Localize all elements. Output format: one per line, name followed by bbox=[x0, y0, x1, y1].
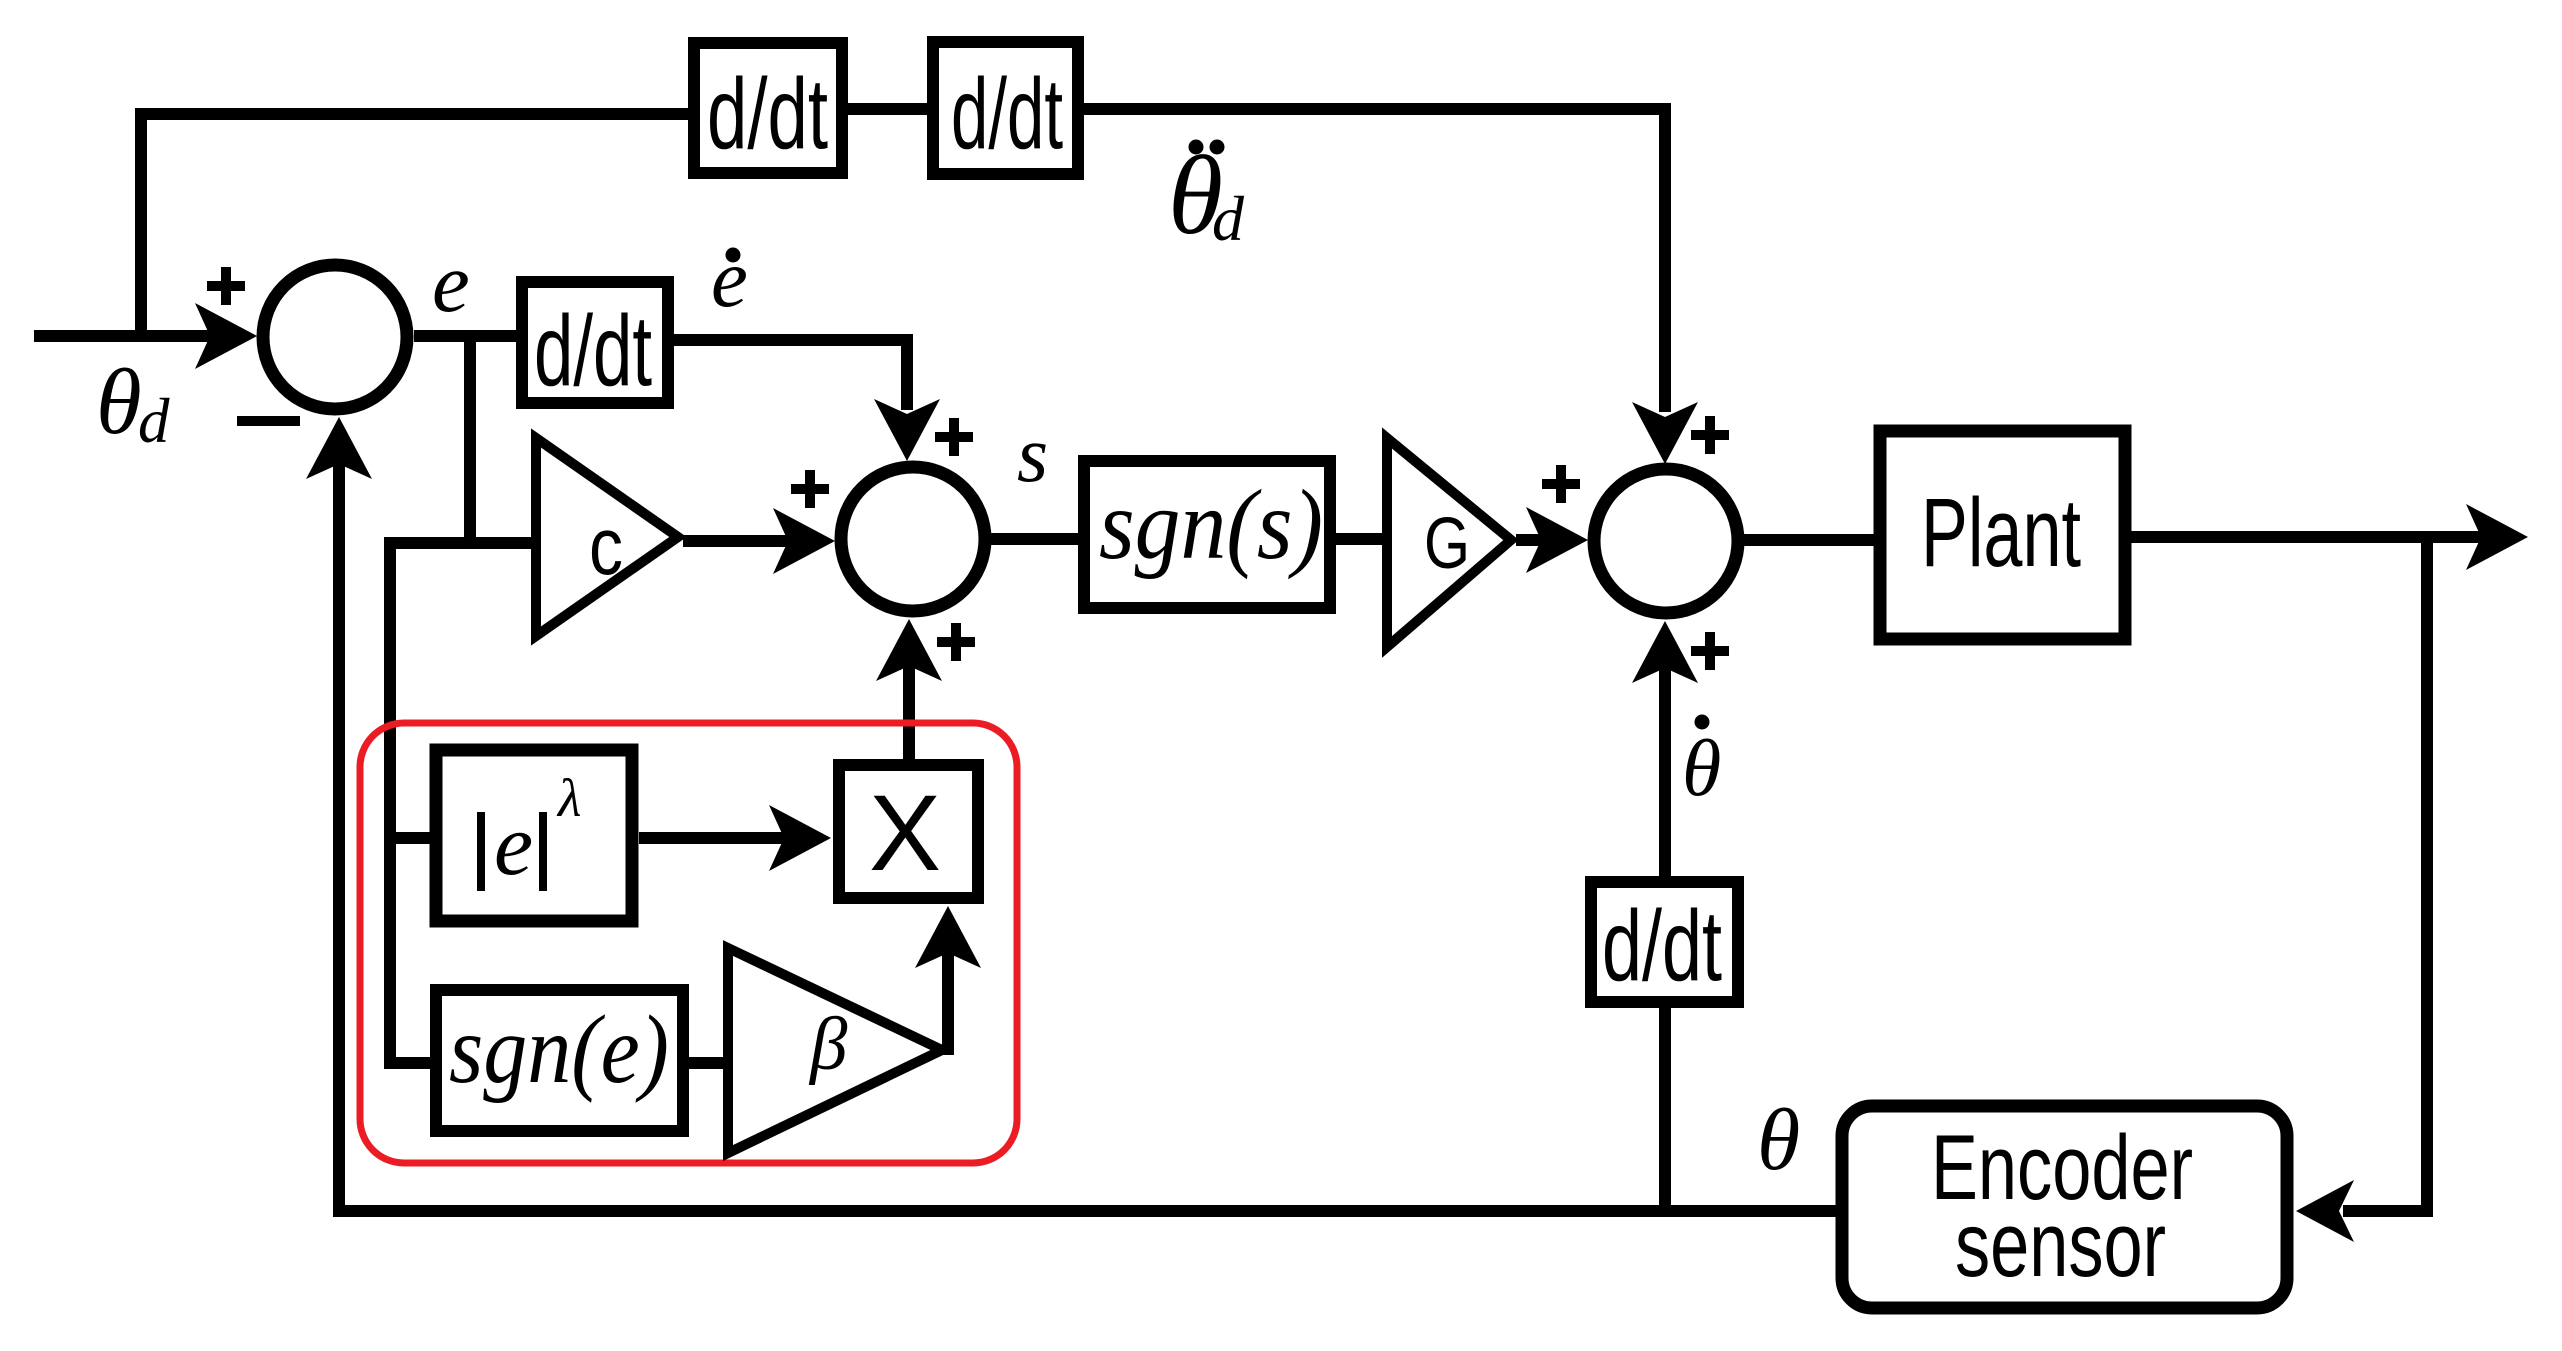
plus sign at S2 top bbox=[935, 418, 973, 456]
plus sign at S3 bottom bbox=[1691, 632, 1729, 670]
wire e output of S1 bbox=[414, 330, 516, 342]
gain G triangle bbox=[1387, 438, 1511, 647]
block sgn(e) bbox=[436, 990, 683, 1131]
wire bottom feedback line theta bbox=[339, 1205, 1840, 1217]
wire stub into sgn(e) block bbox=[384, 1057, 430, 1069]
svg-text:s: s bbox=[1017, 411, 1048, 499]
arrowhead into Encoder sensor right bbox=[2296, 1180, 2354, 1242]
wire sgn(e) to gain beta bbox=[683, 1057, 727, 1069]
arrowhead G into S3 left bbox=[1526, 507, 1588, 573]
plus sign at S2 bottom bbox=[937, 623, 975, 661]
wire feedback into Encoder sensor bbox=[2343, 1205, 2433, 1217]
minus sign at S1 bottom bbox=[237, 416, 300, 426]
plus sign at S3 left bbox=[1542, 465, 1580, 503]
svg-text:d/dt: d/dt bbox=[707, 58, 828, 170]
wire multiplier X up to S2 bottom bbox=[903, 664, 915, 759]
wire between top d/dt blocks bbox=[848, 103, 927, 115]
arrowhead edot into S2 top bbox=[874, 399, 940, 461]
wire theta up to d/dt bbox=[1659, 1008, 1671, 1217]
wire gain beta up to X bottom bbox=[942, 951, 954, 1055]
svg-text:θ: θ bbox=[96, 351, 142, 454]
svg-text:c: c bbox=[589, 501, 623, 592]
wire d/dt up to S3 bottom bbox=[1659, 666, 1671, 876]
wire input theta_d bbox=[34, 330, 210, 342]
svg-text:sgn(s): sgn(s) bbox=[1099, 469, 1323, 580]
svg-text:θ: θ bbox=[1757, 1092, 1800, 1189]
svg-text:sgn(e): sgn(e) bbox=[449, 996, 669, 1103]
svg-text:d/dt: d/dt bbox=[951, 58, 1063, 170]
arrowhead c into S2 left bbox=[773, 508, 835, 574]
gain beta triangle bbox=[728, 948, 942, 1153]
arrowhead thetadd into S3 top bbox=[1632, 402, 1698, 464]
summing junction S2 bbox=[841, 467, 985, 611]
svg-text:e: e bbox=[711, 232, 748, 324]
block |e|^lambda bbox=[436, 750, 632, 921]
svg-text:λ: λ bbox=[556, 768, 581, 828]
svg-text:d/dt: d/dt bbox=[534, 295, 652, 407]
svg-text:e: e bbox=[432, 236, 470, 330]
arrowhead into S1 bottom (minus feedback) bbox=[306, 417, 372, 479]
arrowhead into S1 left bbox=[195, 303, 257, 369]
wire gain c to S2 left bbox=[683, 535, 788, 547]
wire e branch down bbox=[464, 336, 476, 543]
arrowhead abs-e into X left bbox=[769, 805, 831, 871]
arrowhead system output bbox=[2466, 504, 2528, 570]
red highlight box bbox=[360, 723, 1017, 1163]
block Encoder sensor bbox=[1842, 1106, 2287, 1308]
arrowhead beta into X bottom bbox=[915, 906, 981, 968]
svg-text:e: e bbox=[494, 797, 533, 894]
gain c triangle bbox=[536, 438, 678, 636]
block d/dt first (top chain) bbox=[694, 43, 842, 173]
block sgn(s) bbox=[1084, 461, 1330, 608]
svg-text:X: X bbox=[869, 772, 941, 893]
block d/dt (error derivative) bbox=[522, 282, 668, 403]
svg-text:Plant: Plant bbox=[1921, 478, 2081, 587]
arrowhead thetadot into S3 bottom bbox=[1632, 621, 1698, 683]
svg-text:d/dt: d/dt bbox=[1602, 890, 1722, 1002]
block d/dt (feedback derivative) bbox=[1591, 882, 1738, 1002]
block d/dt second (top chain) bbox=[933, 42, 1078, 174]
summing junction S3 bbox=[1594, 469, 1738, 613]
wire top feedforward vertical left bbox=[135, 114, 147, 342]
wire gain G to S3 left bbox=[1516, 534, 1541, 546]
svg-text:θ: θ bbox=[1682, 725, 1721, 813]
plus sign at S2 left bbox=[791, 470, 829, 508]
wire output feedback vertical right bbox=[2421, 537, 2433, 1211]
arrowhead X into S2 bottom bbox=[876, 619, 942, 681]
svg-text:d: d bbox=[138, 386, 170, 456]
wire top feedforward horizontal to d/dt bbox=[135, 108, 688, 120]
plus sign at S1 input bbox=[207, 267, 245, 305]
svg-text:d: d bbox=[1212, 183, 1245, 254]
block Plant bbox=[1880, 431, 2125, 639]
wire s from S2 to sgn(s) bbox=[984, 533, 1078, 545]
wire feedback up to S1 bottom bbox=[333, 462, 345, 1217]
wire Plant output bbox=[2131, 531, 2481, 543]
wire sgn(s) to gain G bbox=[1336, 533, 1384, 545]
summing junction S1 bbox=[263, 265, 407, 409]
wire e vertical into red block bbox=[384, 537, 396, 1063]
svg-text:β: β bbox=[808, 1003, 848, 1086]
wire edot from d/dt to S2 top bbox=[674, 334, 907, 410]
plus sign at S3 top bbox=[1691, 416, 1729, 454]
svg-text:G: G bbox=[1424, 504, 1470, 584]
wire S3 to Plant bbox=[1737, 534, 1874, 546]
wire d/dt to summing junction S3 top bbox=[1084, 103, 1665, 412]
wire stub into abs-e block bbox=[384, 832, 430, 844]
wire e horizontal to gain c bbox=[390, 537, 531, 549]
wire abs-e to multiplier X bbox=[639, 832, 784, 844]
label |e|^lambda bbox=[481, 812, 543, 891]
block multiplier X bbox=[839, 765, 978, 898]
svg-text:sensor: sensor bbox=[1955, 1194, 2166, 1296]
